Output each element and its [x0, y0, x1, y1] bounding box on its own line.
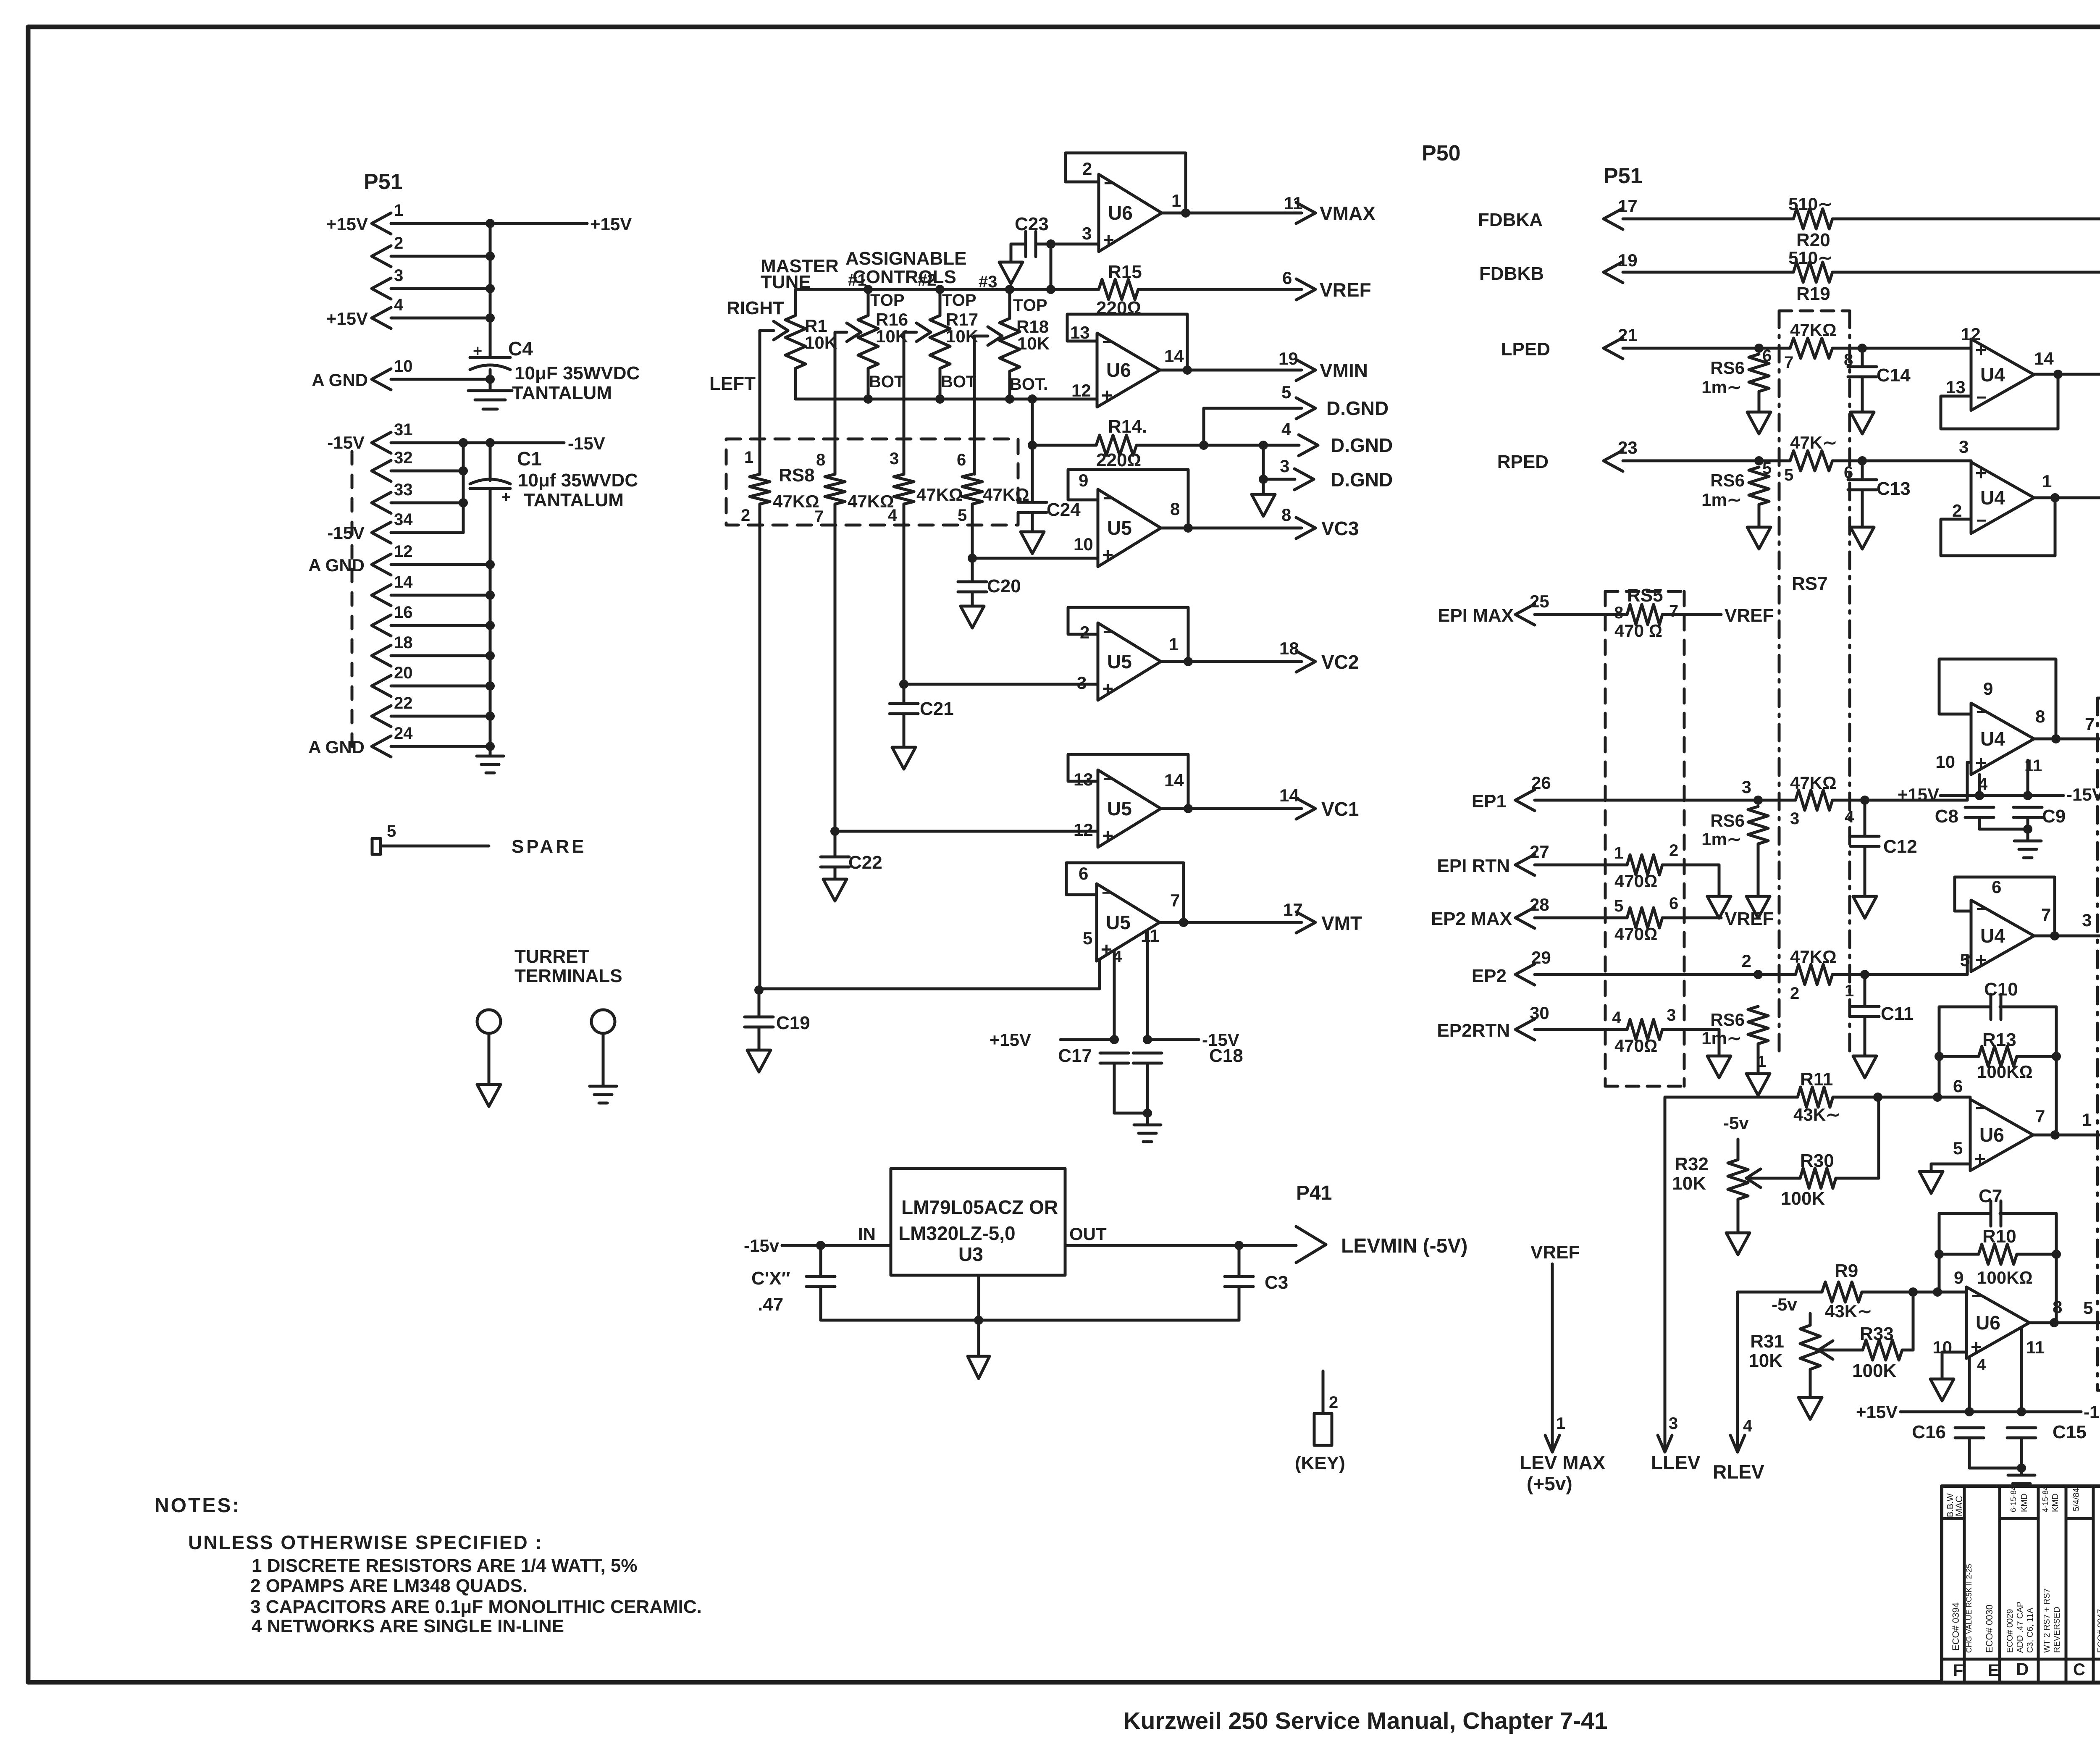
svg-text:ECO# 0394: ECO# 0394: [1950, 1602, 1961, 1651]
svg-text:KMD: KMD: [2020, 1494, 2029, 1512]
svg-text:3 CAPACITORS ARE 0.1μF MONOLI: 3 CAPACITORS ARE 0.1μF MONOLITHIC CERAMI…: [250, 1597, 702, 1617]
svg-text:7: 7: [2035, 1106, 2045, 1126]
svg-text:4: 4: [1977, 1356, 1986, 1374]
capacitor C15: [2007, 1426, 2036, 1429]
wire U5c + input: [830, 827, 840, 836]
svg-text:27: 27: [1530, 842, 1549, 861]
svg-text:510∼: 510∼: [1788, 248, 1832, 268]
svg-text:7: 7: [1669, 602, 1678, 620]
svg-text:30: 30: [1530, 1003, 1549, 1023]
svg-text:VMT: VMT: [1321, 912, 1362, 934]
svg-text:IN: IN: [858, 1224, 876, 1244]
svg-text:100K: 100K: [1852, 1361, 1896, 1381]
svg-text:U4: U4: [1980, 728, 2005, 750]
U5d feedback loop: [1066, 863, 1184, 922]
svg-text:+15V: +15V: [326, 214, 368, 234]
svg-text:U5: U5: [1107, 651, 1132, 672]
svg-text:RS7: RS7: [1792, 573, 1828, 594]
svg-text:−: −: [1976, 899, 1987, 919]
capacitor C7 feedback: [1939, 1213, 1991, 1292]
svg-text:TURRET: TURRET: [514, 946, 590, 967]
U4a feedback loop: [1941, 374, 2058, 429]
svg-text:R15: R15: [1108, 262, 1142, 282]
svg-text:VREF: VREF: [1725, 605, 1774, 626]
wire U5d output to VMT: [1160, 921, 1302, 924]
R1 wiper wire: [760, 329, 774, 332]
svg-text:34: 34: [394, 510, 413, 529]
svg-text:EP1: EP1: [1472, 791, 1507, 812]
svg-text:14: 14: [2034, 349, 2054, 368]
capacitor C3: [1238, 1245, 1241, 1276]
wire to U4b + input: [1862, 460, 1971, 462]
svg-text:C23: C23: [1015, 214, 1049, 234]
svg-text:10: 10: [1935, 752, 1955, 772]
op-amp U4 section D (VEP2): [1971, 900, 2034, 972]
capacitor C10 feedback: [1939, 1007, 1991, 1097]
svg-text:LEV MAX: LEV MAX: [1520, 1452, 1606, 1473]
wire +15V rail to C4: [490, 222, 587, 225]
svg-text:CHG VALUE RC5K II 2-25: CHG VALUE RC5K II 2-25: [1965, 1564, 1973, 1653]
P51 pin 32: [372, 460, 391, 481]
ground C8 C9: [1979, 828, 2028, 831]
svg-text:-15V: -15V: [327, 523, 365, 543]
capacitor C24: [1031, 445, 1034, 502]
svg-text:5: 5: [1960, 950, 1970, 970]
svg-text:470Ω: 470Ω: [1614, 1036, 1657, 1056]
svg-text:EP2: EP2: [1472, 966, 1507, 986]
svg-text:5/4/84: 5/4/84: [2072, 1488, 2081, 1511]
svg-text:(+5v): (+5v): [1527, 1473, 1572, 1494]
svg-text:+15V: +15V: [326, 309, 368, 328]
svg-text:C21: C21: [920, 699, 954, 719]
svg-text:CʹX″: CʹX″: [751, 1268, 790, 1289]
svg-text:+15V: +15V: [1856, 1402, 1898, 1422]
svg-text:+15V: +15V: [590, 214, 632, 234]
svg-text:26: 26: [1531, 773, 1551, 793]
svg-text:10μF 35WVDC: 10μF 35WVDC: [514, 363, 640, 383]
wire U4b output to VRP: [2034, 496, 2100, 499]
svg-text:OUT: OUT: [1069, 1224, 1107, 1244]
wire U5b output to VC2: [1161, 660, 1302, 663]
svg-text:1: 1: [1845, 982, 1854, 1000]
svg-text:C13: C13: [1877, 478, 1911, 499]
capacitor C23: [1011, 243, 1026, 246]
svg-text:F: F: [1953, 1661, 1963, 1680]
BOT bus wire: [795, 398, 1097, 401]
R16 wiper wire: [835, 331, 847, 334]
svg-text:11: 11: [1141, 926, 1159, 946]
wire U5a + input: [968, 554, 977, 563]
P51 pin 33: [372, 492, 391, 513]
svg-text:14: 14: [1164, 770, 1184, 790]
svg-text:C17: C17: [1058, 1045, 1092, 1066]
capacitor C13: [1861, 461, 1864, 480]
ground C15 C16: [1969, 1467, 2021, 1470]
svg-text:1 DISCRETE RESISTORS ARE 1/4: 1 DISCRETE RESISTORS ARE 1/4 WATT, 5%: [252, 1555, 638, 1576]
svg-text:TOP: TOP: [870, 291, 905, 310]
svg-text:−: −: [1976, 510, 1987, 531]
svg-text:U4: U4: [1980, 925, 2005, 947]
A GND bus and ground: [489, 565, 492, 756]
svg-text:C: C: [2073, 1660, 2085, 1679]
svg-text:LLEV: LLEV: [1651, 1452, 1701, 1473]
svg-text:−: −: [1971, 1286, 1982, 1306]
svg-text:470Ω: 470Ω: [1614, 871, 1657, 891]
svg-text:U4: U4: [1980, 487, 2005, 509]
U5d power pin 4 +15V: [1113, 950, 1116, 1040]
R17 wiper wire: [904, 331, 916, 334]
wire U4a output to VLP: [2034, 373, 2100, 376]
svg-text:+: +: [1102, 544, 1113, 566]
svg-text:100KΩ: 100KΩ: [1977, 1062, 2033, 1082]
wire U5c output to VC1: [1161, 807, 1302, 810]
svg-text:19: 19: [1618, 250, 1638, 270]
capacitor C19: [758, 990, 761, 1017]
svg-text:C16: C16: [1912, 1422, 1946, 1442]
svg-text:LM320LZ-5,0: LM320LZ-5,0: [898, 1222, 1016, 1244]
svg-text:TOP: TOP: [942, 291, 976, 310]
svg-text:10K: 10K: [1017, 334, 1050, 353]
svg-text:(KEY): (KEY): [1295, 1453, 1345, 1473]
svg-text:U5: U5: [1107, 517, 1132, 539]
svg-text:EPI RTN: EPI RTN: [1437, 856, 1510, 876]
resistor R13 100K feedback: [1935, 1052, 1944, 1061]
svg-text:RS6: RS6: [1710, 358, 1745, 378]
svg-text:#2: #2: [918, 271, 937, 289]
svg-text:R31: R31: [1750, 1331, 1784, 1352]
resistor 47K (EP1): [1758, 799, 1795, 802]
svg-text:470 Ω: 470 Ω: [1614, 621, 1662, 641]
svg-text:1m∼: 1m∼: [1701, 377, 1742, 397]
svg-text:43K∼: 43K∼: [1825, 1301, 1872, 1321]
svg-text:7: 7: [1784, 353, 1793, 372]
svg-text:6: 6: [957, 451, 966, 469]
svg-text:7: 7: [1170, 890, 1180, 910]
svg-text:7: 7: [814, 507, 824, 526]
svg-text:R30: R30: [1800, 1150, 1834, 1171]
svg-text:D: D: [2016, 1659, 2029, 1679]
svg-text:47KΩ: 47KΩ: [1790, 773, 1837, 793]
P51 pin 2: [372, 246, 391, 267]
P51 pin 20: [372, 675, 391, 696]
svg-text:14: 14: [394, 573, 413, 591]
wire U5d + input from C19 node: [754, 985, 764, 995]
svg-text:3: 3: [1959, 437, 1969, 457]
svg-text:VC2: VC2: [1321, 651, 1359, 673]
svg-text:−: −: [1976, 702, 1987, 722]
svg-text:8: 8: [1281, 505, 1291, 525]
svg-text:29: 29: [1531, 948, 1551, 967]
potentiometer R17 10K (#2): [935, 285, 945, 294]
svg-text:TOP: TOP: [1013, 296, 1047, 315]
svg-text:P41: P41: [1296, 1182, 1332, 1204]
svg-text:2: 2: [1080, 622, 1089, 642]
wire U6b output to VMIN: [1160, 369, 1302, 372]
svg-text:C18: C18: [1209, 1045, 1243, 1066]
svg-text:10K: 10K: [1748, 1350, 1782, 1371]
U6d + input ground: [1942, 1351, 1966, 1354]
svg-text:TANTALUM: TANTALUM: [512, 383, 612, 403]
svg-text:2: 2: [1669, 841, 1678, 860]
svg-text:C9: C9: [2042, 806, 2066, 827]
svg-text:+: +: [1101, 938, 1112, 960]
svg-text:5: 5: [1784, 466, 1793, 484]
svg-text:4-15-84: 4-15-84: [2041, 1486, 2050, 1512]
svg-text:U6: U6: [1108, 202, 1133, 224]
svg-text:4: 4: [1612, 1009, 1622, 1027]
svg-text:13: 13: [1946, 377, 1966, 397]
svg-text:33: 33: [394, 481, 413, 499]
U6c feedback junction: [2050, 1130, 2060, 1140]
svg-text:ECO# 0030: ECO# 0030: [1984, 1605, 1995, 1653]
svg-text:1m∼: 1m∼: [1701, 490, 1742, 510]
svg-text:U5: U5: [1107, 798, 1132, 819]
svg-text:9: 9: [1079, 470, 1088, 490]
wire U6a output to VMAX: [1162, 212, 1302, 215]
op-amp U6 section A (VMAX): [1051, 243, 1099, 246]
connector key symbol: [1322, 1371, 1325, 1413]
svg-text:RS6: RS6: [1710, 1010, 1745, 1030]
svg-text:RS5: RS5: [1627, 585, 1663, 606]
svg-text:RS6: RS6: [1710, 470, 1745, 490]
capacitor C17: [1100, 1052, 1129, 1055]
revision table columns: [1963, 1486, 1966, 1682]
svg-text:47KΩ: 47KΩ: [916, 485, 963, 504]
svg-text:1: 1: [744, 448, 753, 467]
capacitor C20: [971, 558, 974, 582]
svg-text:C7: C7: [1979, 1186, 2002, 1206]
svg-text:BOT.: BOT.: [1010, 375, 1048, 394]
svg-text:+: +: [1974, 1148, 1986, 1170]
svg-text:1: 1: [1614, 844, 1623, 862]
svg-text:2: 2: [1952, 501, 1962, 520]
svg-text:20: 20: [394, 664, 413, 682]
svg-text:4: 4: [1743, 1417, 1753, 1435]
P51 pin 22: [372, 706, 391, 727]
svg-text:#1: #1: [848, 271, 867, 289]
svg-text:A GND: A GND: [308, 555, 365, 575]
svg-text:28: 28: [1530, 895, 1549, 914]
svg-text:1: 1: [2082, 1110, 2092, 1129]
svg-text:C8: C8: [1935, 806, 1958, 827]
capacitor C21: [903, 684, 906, 704]
svg-text:C3: C3: [1265, 1272, 1288, 1293]
ground R32: [1726, 1233, 1750, 1255]
svg-text:4: 4: [394, 296, 404, 314]
svg-text:ASSIGNABLE: ASSIGNABLE: [845, 248, 966, 269]
wire U4d output through 470 to VEP2: [2034, 935, 2100, 938]
svg-text:17: 17: [1283, 900, 1303, 919]
svg-text:−: −: [1104, 173, 1115, 194]
capacitor C9: [2013, 806, 2042, 809]
op-amp U5 section A (VC3): [1098, 489, 1161, 567]
svg-text:C22: C22: [848, 852, 882, 873]
svg-text:R19: R19: [1796, 284, 1830, 304]
svg-text:6: 6: [1282, 268, 1292, 288]
svg-text:10K: 10K: [1672, 1173, 1706, 1194]
resistor R9 43K: [1738, 1291, 1822, 1294]
potentiometer R31 10K: [1809, 1313, 1812, 1325]
svg-text:2: 2: [1790, 984, 1799, 1003]
svg-text:6: 6: [1079, 864, 1088, 883]
svg-text:MAC: MAC: [1954, 1496, 1964, 1516]
svg-text:+: +: [1102, 678, 1113, 699]
svg-text:EPI MAX: EPI MAX: [1438, 605, 1514, 626]
U5a feedback loop: [1068, 470, 1188, 528]
svg-text:+15V: +15V: [1898, 785, 1939, 804]
U6a feedback loop: [1066, 153, 1186, 213]
svg-text:+: +: [501, 489, 511, 506]
svg-text:-5v: -5v: [1772, 1295, 1797, 1314]
border frame: [28, 25, 2100, 29]
svg-text:5: 5: [1083, 928, 1092, 948]
wire R15 to VREF: [1138, 288, 1302, 291]
svg-text:+: +: [1103, 229, 1114, 251]
U6b feedback loop: [1067, 314, 1187, 370]
svg-text:4: 4: [888, 506, 898, 525]
svg-text:EP2RTN: EP2RTN: [1437, 1020, 1510, 1041]
svg-text:C11: C11: [1881, 1003, 1914, 1024]
svg-text:5: 5: [1281, 382, 1291, 402]
turret terminal 2: [591, 1010, 615, 1033]
svg-text:LPED: LPED: [1501, 339, 1550, 360]
capacitor CX .47: [819, 1245, 822, 1276]
svg-text:22: 22: [394, 694, 413, 712]
svg-text:C1: C1: [517, 448, 542, 470]
svg-text:6: 6: [1992, 877, 2001, 897]
svg-text:1: 1: [394, 201, 403, 220]
wire D.GND pin 3: [1262, 445, 1265, 479]
svg-text:47K∼: 47K∼: [1790, 433, 1837, 452]
svg-text:FDBKA: FDBKA: [1478, 210, 1543, 230]
svg-text:13: 13: [1074, 770, 1093, 789]
svg-text:C12: C12: [1883, 836, 1917, 857]
U4c feedback loop: [1939, 659, 2056, 739]
svg-text:1m∼: 1m∼: [1701, 1028, 1742, 1048]
svg-text:ADD .47 CAP: ADD .47 CAP: [2016, 1602, 2025, 1653]
op-amp U5 section C (VC1): [1098, 770, 1161, 847]
svg-text:D.GND: D.GND: [1331, 434, 1393, 456]
wire U3 output to P41 LEVMIN: [1065, 1244, 1296, 1247]
wire RLEV: [1736, 1292, 1739, 1447]
svg-text:−: −: [1102, 332, 1113, 352]
svg-text:10μf 35WVDC: 10μf 35WVDC: [518, 470, 638, 491]
svg-text:C3, C6, 11A: C3, C6, 11A: [2026, 1607, 2035, 1653]
svg-text:17: 17: [1618, 196, 1638, 216]
wire to U4c + input: [1865, 799, 1967, 802]
svg-text:9: 9: [1983, 679, 1993, 699]
svg-text:C4: C4: [508, 338, 533, 360]
svg-text:47KΩ: 47KΩ: [1790, 320, 1837, 340]
svg-text:NOTES:: NOTES:: [155, 1494, 241, 1517]
svg-text:−: −: [1976, 387, 1987, 408]
svg-text:P50: P50: [1422, 141, 1461, 165]
svg-text:+: +: [1975, 462, 1987, 484]
svg-text:1m∼: 1m∼: [1701, 829, 1742, 849]
wire U5b + input: [899, 680, 908, 689]
svg-text:C24: C24: [1047, 499, 1081, 520]
svg-text:13: 13: [1070, 323, 1090, 342]
svg-text:8: 8: [2053, 1297, 2062, 1317]
svg-text:Kurzweil 250 Service Manual, C: Kurzweil 250 Service Manual, Chapter 7-4…: [1123, 1707, 1607, 1734]
svg-text:E: E: [1988, 1661, 1999, 1680]
svg-text:−: −: [1975, 1098, 1986, 1119]
op-amp U6 section C (VLL): [1970, 1099, 2033, 1171]
svg-text:3: 3: [394, 266, 403, 285]
svg-text:−: −: [1102, 883, 1113, 903]
op-amp U4 section C (VEP1): [1971, 703, 2034, 775]
resistor RS6 section 1M (RPED): [1749, 467, 1769, 504]
svg-text:LM79L05ACZ OR: LM79L05ACZ OR: [901, 1196, 1058, 1218]
wire to U4a + input: [1862, 347, 1971, 350]
resistor R10 100K feedback: [1935, 1250, 1944, 1259]
potentiometer R16 10K (#1): [864, 285, 873, 294]
svg-text:-5v: -5v: [1723, 1113, 1749, 1133]
svg-text:A GND: A GND: [312, 370, 368, 390]
svg-text:R9: R9: [1835, 1261, 1858, 1281]
svg-text:VREF: VREF: [1320, 279, 1371, 301]
resistor RS6 section 1M (EP1): [1748, 806, 1768, 844]
svg-text:FDBKB: FDBKB: [1479, 263, 1544, 284]
svg-text:SPARE: SPARE: [512, 836, 586, 857]
svg-text:10: 10: [394, 357, 413, 376]
svg-text:KMD: KMD: [2051, 1494, 2060, 1512]
svg-text:-15v: -15v: [744, 1236, 780, 1255]
svg-text:−: −: [1103, 488, 1114, 509]
potentiometer R18 10K (#3): [1005, 285, 1014, 294]
svg-text:21: 21: [1618, 325, 1638, 345]
U5d power pin 11 -15V: [1146, 932, 1149, 1040]
op-amp U6 section B (VMIN): [1097, 333, 1160, 407]
revision table rows: [1942, 1517, 1964, 1520]
TOP bus wire: [795, 288, 1099, 291]
LEFT wiper net vertical: [759, 331, 761, 474]
svg-text:P51: P51: [1604, 164, 1643, 188]
svg-text:R13: R13: [1982, 1030, 2016, 1050]
svg-text:5: 5: [2083, 1298, 2093, 1318]
svg-text:+15V: +15V: [990, 1030, 1031, 1050]
svg-text:ECO# 0029: ECO# 0029: [2005, 1609, 2015, 1653]
svg-text:3: 3: [1667, 1006, 1676, 1024]
svg-text:C15: C15: [2053, 1422, 2087, 1442]
svg-text:10K: 10K: [805, 333, 837, 352]
svg-text:16: 16: [394, 603, 413, 622]
resistor R30 100K: [1746, 1177, 1800, 1180]
svg-text:1: 1: [1171, 191, 1181, 210]
capacitor C14: [1861, 348, 1864, 367]
svg-text:C19: C19: [776, 1013, 810, 1033]
resistor 47K (EP2): [1758, 973, 1795, 976]
svg-text:32: 32: [394, 449, 413, 467]
svg-text:8: 8: [2035, 707, 2045, 726]
svg-text:3: 3: [1280, 456, 1289, 476]
svg-text:LEVMIN (-5V): LEVMIN (-5V): [1341, 1235, 1467, 1257]
wire U5a output to VC3: [1161, 527, 1302, 530]
svg-text:7: 7: [2085, 714, 2095, 734]
svg-text:1: 1: [1556, 1414, 1565, 1433]
capacitor C12: [1864, 800, 1866, 836]
svg-text:RS8: RS8: [779, 465, 815, 486]
svg-text:VMAX: VMAX: [1320, 202, 1375, 224]
svg-text:1: 1: [1757, 1053, 1766, 1071]
svg-text:6: 6: [1953, 1076, 1963, 1096]
svg-text:U6: U6: [1979, 1124, 2004, 1146]
svg-text:5: 5: [958, 506, 967, 525]
svg-text:3: 3: [1669, 1414, 1678, 1433]
svg-text:C20: C20: [987, 576, 1021, 596]
resistor R14 220: [1031, 399, 1034, 445]
P51 pin 18: [372, 645, 391, 666]
